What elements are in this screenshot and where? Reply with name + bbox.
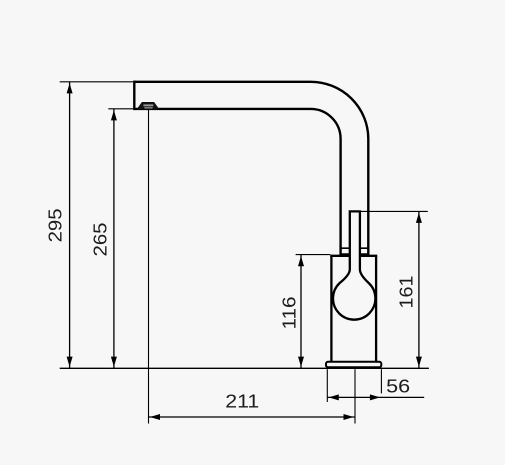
- svg-text:161: 161: [396, 276, 416, 309]
- svg-text:211: 211: [225, 392, 259, 412]
- svg-text:56: 56: [386, 376, 410, 396]
- svg-text:116: 116: [280, 297, 300, 330]
- svg-text:295: 295: [46, 208, 66, 242]
- svg-text:265: 265: [91, 223, 111, 257]
